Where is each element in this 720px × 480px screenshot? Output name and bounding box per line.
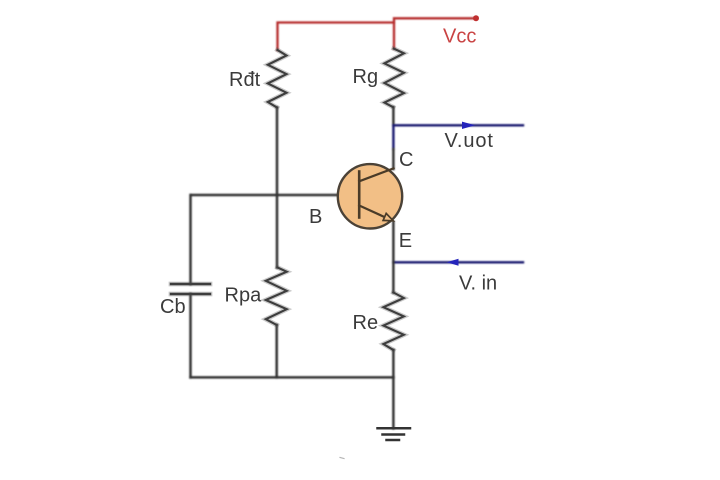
svg-text:Vcc: Vcc	[443, 26, 476, 48]
svg-text:Cb: Cb	[160, 296, 186, 318]
svg-text:V. in: V. in	[459, 273, 497, 295]
resistor Rdt	[268, 50, 287, 108]
wire	[278, 23, 395, 51]
wire	[275, 325, 278, 377]
arrow V.uot	[462, 122, 475, 129]
svg-text:Rg: Rg	[353, 66, 379, 88]
wire	[276, 195, 279, 268]
wire	[191, 194, 359, 197]
svg-text:E: E	[399, 230, 412, 252]
wire	[392, 222, 395, 262]
svg-text:Re: Re	[353, 312, 379, 334]
wire	[392, 262, 395, 292]
svg-text:Rpa: Rpa	[225, 285, 263, 307]
ground	[378, 428, 411, 440]
wire	[392, 350, 395, 377]
resistor Rg	[384, 49, 404, 108]
resistor Re	[383, 293, 403, 351]
wire	[393, 125, 523, 149]
wire	[394, 18, 476, 48]
wire	[276, 108, 279, 196]
stray mark	[340, 458, 344, 459]
capacitor Cb	[171, 284, 210, 294]
transistor Q1	[338, 164, 402, 228]
svg-text:V.uot: V.uot	[445, 130, 494, 152]
wire	[393, 261, 523, 263]
wire	[392, 377, 395, 428]
wire	[191, 376, 394, 379]
wire	[392, 107, 395, 125]
node Vcc	[473, 15, 479, 21]
wire	[189, 294, 192, 377]
svg-text:C: C	[399, 149, 413, 171]
arrow V.in	[447, 259, 459, 266]
svg-text:B: B	[309, 206, 322, 228]
wire	[392, 149, 395, 169]
resistor Rpa	[266, 268, 287, 326]
wire	[189, 195, 192, 284]
svg-text:Rđt: Rđt	[229, 69, 261, 91]
